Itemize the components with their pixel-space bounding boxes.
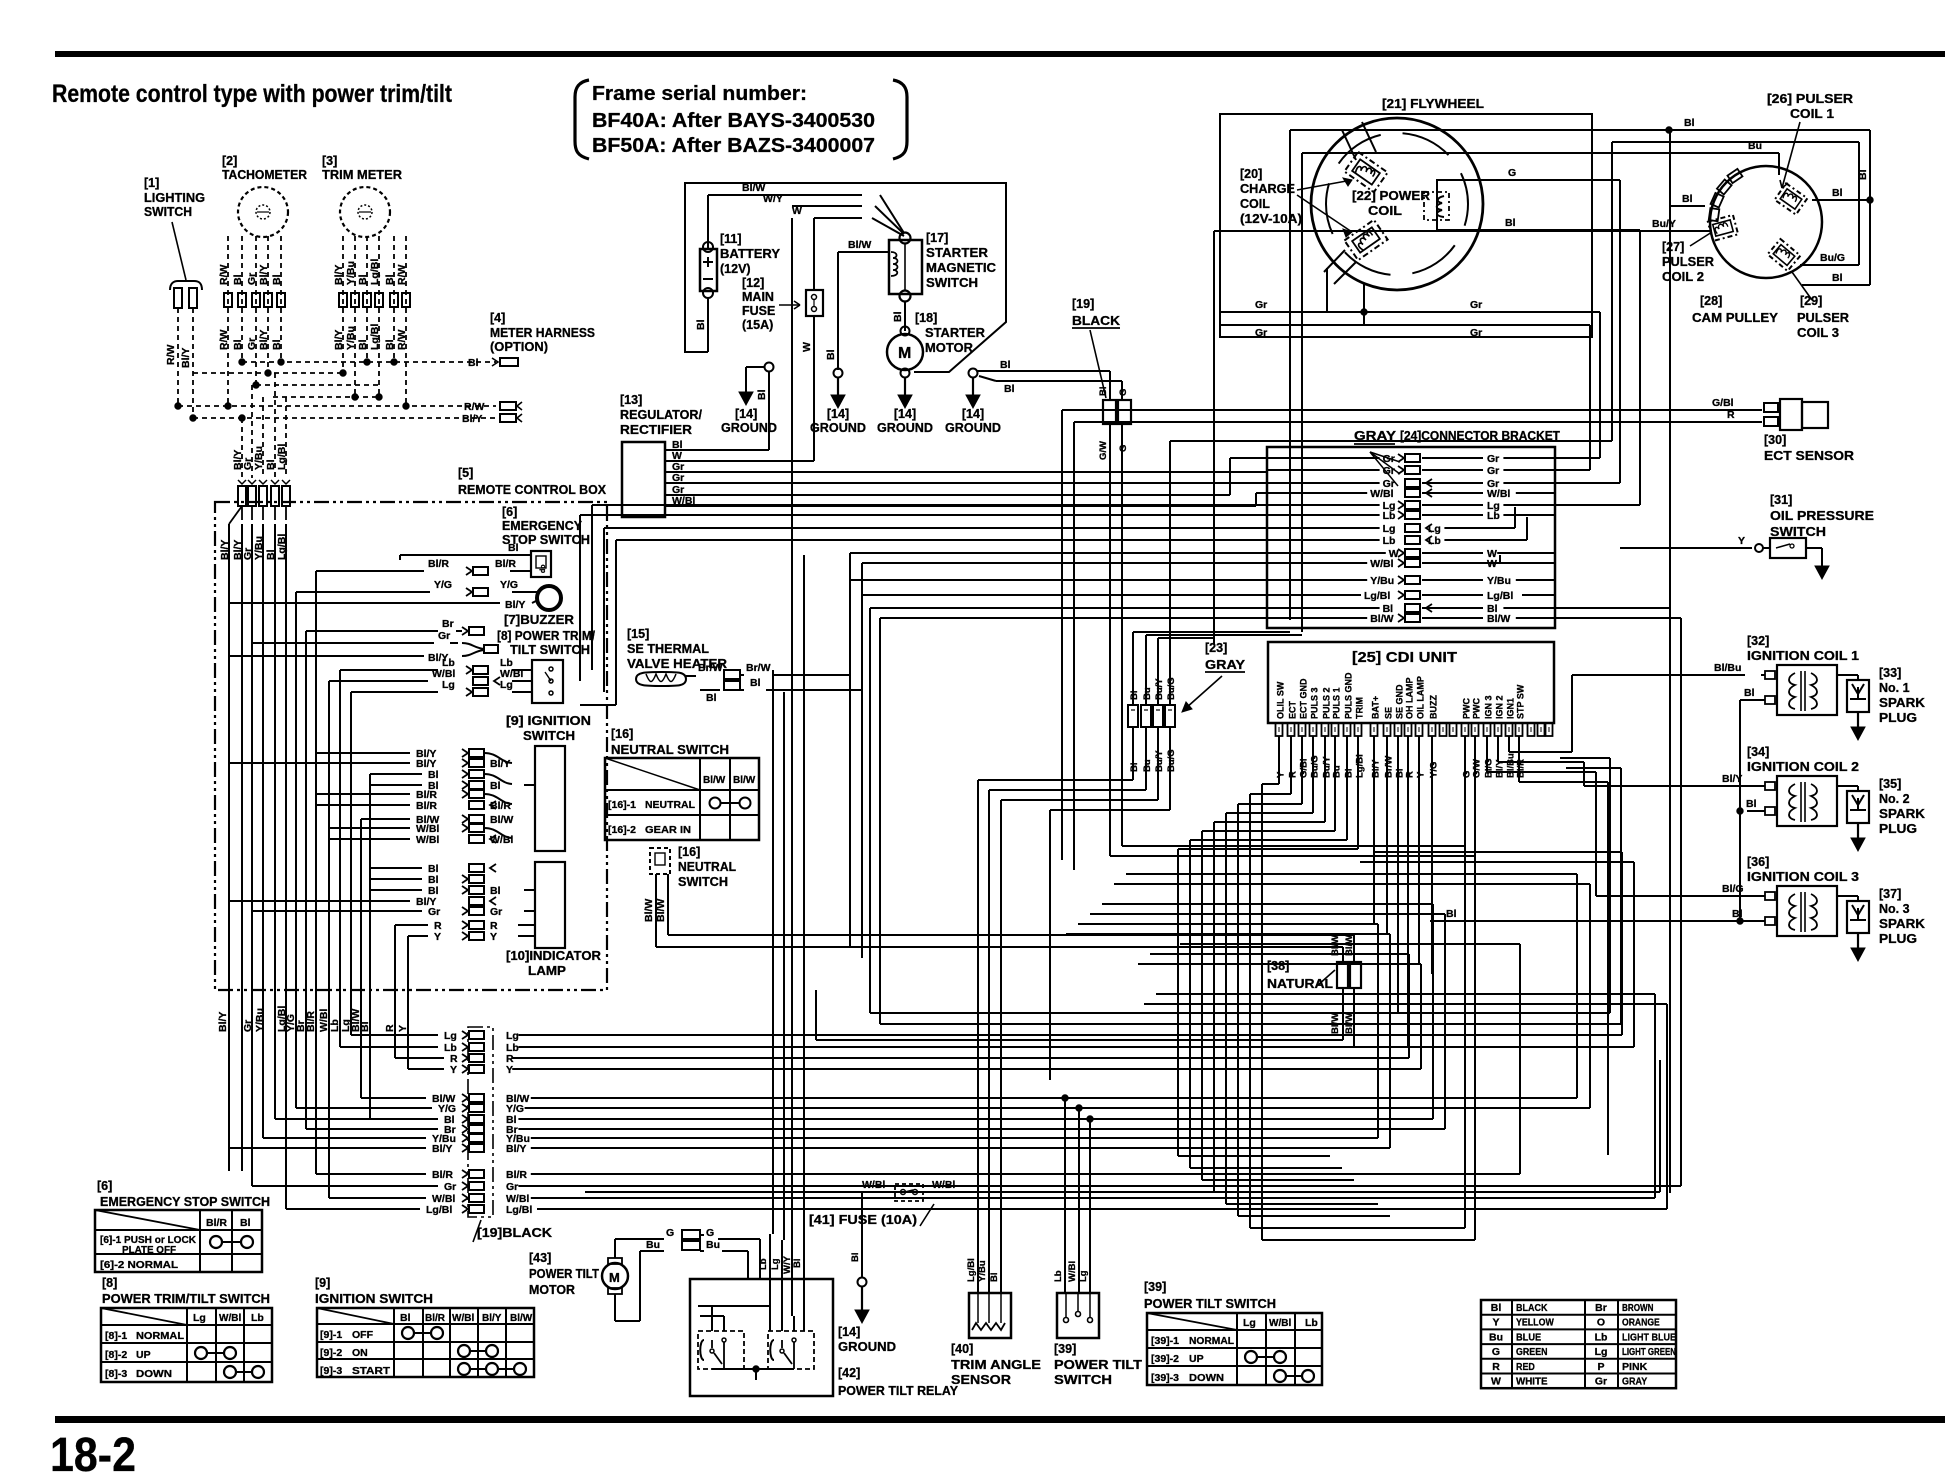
ground label [14] relay [838, 1325, 896, 1354]
svg-text:IGNITION COIL 2: IGNITION COIL 2 [1747, 760, 1859, 774]
svg-text:GROUND: GROUND [838, 1340, 896, 1354]
svg-text:Y/Bu: Y/Bu [1487, 575, 1511, 587]
svg-text:Bl: Bl [232, 339, 244, 350]
relay unit 2 [768, 1331, 814, 1369]
svg-text:Bl: Bl [1744, 687, 1755, 699]
cdi mid wires [1374, 736, 1432, 1047]
svg-text:Bl/Y: Bl/Y [1371, 759, 1382, 778]
svg-text:Bl: Bl [1000, 359, 1011, 371]
svg-text:Lg/Bl: Lg/Bl [966, 1258, 977, 1282]
svg-text:[39]-1: [39]-1 [1151, 1335, 1179, 1347]
wire Br [306, 618, 484, 635]
svg-text:Y: Y [397, 1025, 409, 1032]
oil pressure switch [1620, 535, 1829, 579]
svg-text:Bl: Bl [271, 339, 283, 350]
svg-text:PLUG: PLUG [1879, 932, 1917, 946]
svg-text:PULS 1: PULS 1 [1332, 687, 1342, 719]
svg-text:SWITCH: SWITCH [926, 276, 978, 290]
svg-text:Bl/R: Bl/R [206, 1217, 227, 1229]
svg-text:[5]: [5] [458, 466, 473, 480]
svg-text:Bl: Bl [989, 1273, 1000, 1283]
bracket left run lgbl [862, 595, 1267, 958]
svg-text:R: R [1727, 409, 1735, 421]
svg-text:CAM PULLEY: CAM PULLEY [1692, 311, 1779, 325]
battery Bl lead [695, 298, 708, 352]
pulser coil3 label [29] [1792, 272, 1849, 340]
svg-text:ECT: ECT [1288, 700, 1298, 719]
svg-text:Bl: Bl [357, 339, 369, 350]
svg-text:GROUND: GROUND [945, 421, 1001, 435]
svg-text:[27]: [27] [1662, 240, 1684, 254]
svg-text:PWC: PWC [1462, 698, 1472, 719]
pulser Bl top wire [1290, 117, 1870, 620]
wire Bl/Y fork [229, 652, 448, 664]
connector bracket box [1267, 447, 1555, 628]
pulser coil2 BuY wire [1214, 218, 1712, 644]
svg-text:[9] IGNITION: [9] IGNITION [506, 714, 591, 728]
svg-text:GROUND: GROUND [810, 421, 866, 435]
svg-text:Y/Bu: Y/Bu [345, 326, 357, 350]
svg-text:LIGHT GREEN: LIGHT GREEN [1622, 1346, 1676, 1358]
svg-text:Bl: Bl [359, 1021, 371, 1032]
svg-text:STARTER: STARTER [926, 246, 988, 260]
svg-text:M: M [898, 345, 911, 362]
svg-text:Bu: Bu [1142, 759, 1153, 772]
svg-text:Bl: Bl [271, 274, 283, 285]
svg-text:ORANGE: ORANGE [1622, 1317, 1660, 1329]
svg-text:Bu/Y: Bu/Y [1652, 218, 1676, 230]
wire lighting R/W [165, 308, 178, 406]
svg-text:R: R [1492, 1361, 1500, 1373]
bracket left runs lg lb [580, 505, 1267, 705]
svg-text:BUZZ: BUZZ [1429, 695, 1439, 719]
svg-text:Bl/W: Bl/W [643, 899, 655, 922]
svg-text:Bl/R: Bl/R [425, 1313, 446, 1324]
svg-text:R: R [1288, 771, 1299, 778]
svg-text:GRAY: GRAY [1205, 657, 1245, 672]
svg-text:LIGHT BLUE: LIGHT BLUE [1622, 1331, 1676, 1343]
svg-text:O: O [1597, 1317, 1605, 1329]
svg-text:Br: Br [442, 618, 454, 630]
svg-text:Bl: Bl [490, 885, 501, 897]
svg-text:P: P [1597, 1361, 1604, 1373]
svg-text:[16]-1: [16]-1 [608, 799, 636, 811]
svg-text:[32]: [32] [1747, 634, 1769, 648]
svg-text:W: W [801, 342, 813, 352]
svg-text:Bu: Bu [706, 1239, 720, 1251]
svg-text:Y/Bu: Y/Bu [254, 1008, 266, 1032]
regulator wire Gr1 [665, 471, 1267, 473]
black connector column wires [229, 618, 1681, 1216]
indicator lamp label [506, 949, 601, 978]
svg-text:[2]: [2] [222, 154, 237, 168]
svg-text:W/Bl: W/Bl [1370, 488, 1393, 500]
svg-text:[39]: [39] [1144, 1280, 1166, 1294]
svg-text:[7]BUZZER: [7]BUZZER [504, 613, 574, 627]
svg-text:Gr: Gr [1487, 453, 1499, 465]
svg-text:[6]: [6] [97, 1179, 112, 1193]
pulser rim ticks [1709, 169, 1743, 221]
svg-text:PULS 3: PULS 3 [1310, 687, 1320, 719]
svg-text:EMERGENCY STOP SWITCH: EMERGENCY STOP SWITCH [100, 1194, 270, 1209]
svg-text:Bl: Bl [384, 274, 396, 285]
meter bus Gr [253, 382, 379, 388]
wire Bl/W to switch [838, 239, 889, 342]
svg-text:SENSOR: SENSOR [951, 1372, 1012, 1387]
svg-text:R/W: R/W [165, 345, 177, 366]
svg-text:Bl: Bl [490, 780, 501, 792]
svg-text:W/Bl: W/Bl [1370, 558, 1393, 570]
neutral switch symbol [16] [650, 845, 736, 889]
svg-text:M: M [609, 1270, 620, 1285]
ground labels 14 [810, 407, 1001, 435]
ignition switch wires [228, 748, 536, 846]
svg-text:SWITCH: SWITCH [1770, 524, 1826, 539]
gray connector [23] label [1182, 641, 1245, 712]
svg-text:[15]: [15] [627, 627, 649, 641]
relay unit 1 [698, 1331, 744, 1369]
svg-text:LIGHTING: LIGHTING [144, 191, 205, 205]
svg-text:FUSE: FUSE [742, 304, 775, 318]
svg-text:[22] POWER: [22] POWER [1352, 189, 1430, 203]
bracket diag ticks [1370, 452, 1400, 486]
svg-text:G/W: G/W [1098, 441, 1109, 460]
power coil G wire [1478, 167, 1620, 483]
svg-text:Lg: Lg [1595, 1346, 1608, 1358]
svg-text:[40]: [40] [951, 1342, 973, 1356]
svg-text:Lg: Lg [500, 679, 513, 691]
svg-text:Lg: Lg [1428, 523, 1441, 535]
svg-text:Bl: Bl [792, 1259, 803, 1269]
svg-text:Bl/Y: Bl/Y [333, 265, 345, 285]
pulser coil2 label [1662, 232, 1714, 284]
fuse 10A line [585, 1060, 1660, 1192]
svg-text:Bl: Bl [1832, 272, 1843, 284]
bottom rule [55, 1416, 1945, 1423]
svg-text:CHARGE: CHARGE [1240, 182, 1295, 196]
ect sensor symbol [1764, 399, 1828, 430]
svg-text:[19]: [19] [1072, 297, 1094, 311]
trim meter gauge [340, 187, 390, 237]
svg-text:TRIM: TRIM [1355, 697, 1365, 719]
flywheel [21] label [1382, 96, 1484, 111]
top rule [55, 51, 1945, 57]
starter magnetic switch [17] [889, 231, 996, 302]
svg-text:[43]: [43] [529, 1251, 551, 1265]
svg-text:Y/Bu: Y/Bu [345, 261, 357, 285]
svg-text:UP: UP [1189, 1353, 1204, 1365]
relay label [42] [838, 1366, 958, 1398]
motor Bu wire [615, 1239, 748, 1321]
cdi pins [1276, 672, 1553, 736]
svg-text:Lg: Lg [442, 679, 455, 691]
svg-text:[39]: [39] [1054, 1342, 1076, 1356]
svg-text:Bu: Bu [1332, 765, 1343, 778]
svg-text:Bl/G: Bl/G [1484, 758, 1495, 778]
svg-text:Br/W: Br/W [1384, 756, 1395, 778]
svg-text:EMERGENCY: EMERGENCY [502, 519, 583, 533]
svg-text:[9]-2: [9]-2 [320, 1347, 342, 1359]
charge coil Gr wires [1220, 268, 1600, 470]
svg-text:Bl: Bl [892, 311, 904, 322]
frame serial number box [575, 80, 907, 159]
svg-text:Remote control type with power: Remote control type with power trim/tilt [52, 80, 453, 108]
svg-text:Lb: Lb [1305, 1317, 1318, 1329]
svg-text:[8]: [8] [102, 1276, 117, 1290]
svg-text:BLACK: BLACK [1072, 313, 1121, 328]
svg-text:GEAR IN: GEAR IN [645, 824, 691, 836]
svg-text:NORMAL: NORMAL [1189, 1335, 1235, 1347]
svg-text:[8]-2: [8]-2 [105, 1349, 127, 1361]
svg-text:Lg: Lg [1243, 1317, 1256, 1329]
svg-text:[36]: [36] [1747, 855, 1769, 869]
svg-text:ECT GND: ECT GND [1299, 678, 1309, 719]
svg-text:Bl: Bl [1004, 383, 1015, 395]
svg-text:Lg/Bl: Lg/Bl [506, 1204, 532, 1216]
black connector column outline [468, 1027, 493, 1217]
svg-text:Bl: Bl [384, 339, 396, 350]
svg-text:Gr: Gr [246, 273, 258, 285]
svg-text:Bl/W: Bl/W [510, 1313, 533, 1324]
ground starter motor [898, 377, 912, 408]
cdi wire STP BlR [1519, 736, 1608, 1155]
ground mid Bl [825, 342, 845, 408]
svg-text:SE THERMAL: SE THERMAL [627, 642, 709, 656]
svg-text:PULSER: PULSER [1797, 311, 1849, 325]
ignition coil U2 [34] [1747, 745, 1925, 851]
svg-text:Bl: Bl [1098, 387, 1109, 397]
svg-text:Bl: Bl [400, 1312, 411, 1324]
ect sensor wires [1062, 397, 1762, 870]
svg-text:[26] PULSER: [26] PULSER [1767, 92, 1853, 106]
svg-text:BF40A: After BAYS-3400530: BF40A: After BAYS-3400530 [592, 110, 875, 132]
svg-text:PULS 2: PULS 2 [1322, 687, 1332, 719]
tachometer wires [218, 236, 285, 406]
svg-text:[11]: [11] [720, 232, 742, 246]
svg-text:Lg/Bl: Lg/Bl [1364, 590, 1390, 602]
svg-text:COIL: COIL [1368, 204, 1402, 218]
svg-text:(12V-10A): (12V-10A) [1240, 212, 1302, 226]
svg-text:POWER TRIM/TILT SWITCH: POWER TRIM/TILT SWITCH [102, 1291, 270, 1306]
gw g to cdi [1110, 774, 1475, 856]
svg-text:SPARK: SPARK [1879, 696, 1925, 710]
cdi left wires [1178, 736, 1358, 1240]
meter harness [4] label [490, 311, 595, 354]
svg-text:DOWN: DOWN [1189, 1372, 1224, 1384]
svg-text:COIL: COIL [1240, 197, 1270, 211]
svg-text:[28]: [28] [1700, 294, 1722, 308]
svg-text:SWITCH: SWITCH [523, 729, 575, 743]
gray connector wires up [1133, 441, 1612, 705]
svg-text:Bu: Bu [1489, 1331, 1503, 1343]
svg-text:[8]-1: [8]-1 [105, 1330, 127, 1342]
oil pressure switch label [1770, 493, 1874, 539]
svg-text:STARTER: STARTER [925, 326, 985, 340]
svg-text:Bl: Bl [1682, 193, 1693, 205]
relay verticals from top [592, 218, 804, 1252]
wire Bl/R stop switch [316, 558, 531, 575]
svg-text:[30]: [30] [1764, 433, 1786, 447]
svg-text:Bl: Bl [1129, 691, 1140, 701]
wire Bl/Y buzzer [229, 599, 538, 611]
svg-text:G: G [666, 1227, 674, 1239]
svg-text:UP: UP [136, 1349, 151, 1361]
svg-text:[29]: [29] [1800, 294, 1822, 308]
black connector upper wires down [1098, 371, 1129, 856]
svg-text:Bl/W: Bl/W [490, 814, 513, 826]
svg-text:[18]: [18] [915, 311, 937, 325]
svg-text:TACHOMETER: TACHOMETER [222, 168, 307, 182]
pulser coil 2 symbol [1708, 215, 1738, 241]
svg-text:Lb: Lb [1428, 535, 1441, 547]
svg-text:Bu: Bu [646, 1239, 660, 1251]
svg-text:BLACK: BLACK [1516, 1302, 1548, 1314]
lighting switch [1] label [144, 176, 205, 280]
svg-text:Y/Bu: Y/Bu [253, 446, 265, 470]
svg-text:Lg/Bl: Lg/Bl [276, 444, 288, 470]
svg-text:R: R [384, 1024, 396, 1032]
svg-text:START: START [352, 1365, 391, 1377]
svg-text:Lb: Lb [1487, 510, 1500, 522]
cdi wire G/W [1474, 736, 1476, 1240]
svg-text:Bu/G: Bu/G [1820, 252, 1845, 264]
svg-text:Bl/Y: Bl/Y [505, 599, 525, 611]
svg-text:Gr: Gr [1595, 1376, 1607, 1388]
emergency stop switch table [6] [95, 1179, 270, 1272]
svg-text:Bl/R: Bl/R [432, 1169, 453, 1181]
svg-text:Bl: Bl [1491, 1302, 1502, 1314]
svg-text:W/Bl: W/Bl [219, 1313, 241, 1324]
svg-text:YELLOW: YELLOW [1516, 1317, 1554, 1329]
svg-text:PULSER: PULSER [1662, 255, 1714, 269]
svg-text:G/W: G/W [1472, 759, 1483, 778]
svg-text:[31]: [31] [1770, 493, 1792, 507]
svg-text:IGNITION COIL 3: IGNITION COIL 3 [1747, 870, 1859, 884]
svg-text:IGN 2: IGN 2 [1495, 695, 1505, 719]
pulser Bu wire [1302, 140, 1779, 632]
heater wires [686, 662, 862, 704]
svg-text:Gr: Gr [444, 1181, 456, 1193]
svg-text:NEUTRAL SWITCH: NEUTRAL SWITCH [611, 742, 729, 757]
svg-text:Bl/Y: Bl/Y [180, 348, 192, 368]
svg-text:Bl/Y: Bl/Y [258, 330, 270, 350]
regulator wire W [665, 460, 814, 462]
svg-text:ECT SENSOR: ECT SENSOR [1764, 448, 1855, 463]
svg-text:Bl/Y: Bl/Y [258, 265, 270, 285]
power tilt switch label [1054, 1342, 1142, 1387]
svg-text:[1]: [1] [144, 176, 159, 190]
ignition coil U3 [36] [1747, 855, 1925, 961]
black connector upper symbol [1098, 387, 1131, 425]
svg-text:Lg/Bl: Lg/Bl [1355, 754, 1366, 778]
svg-text:Gr: Gr [1487, 465, 1499, 477]
svg-text:Bu/Y: Bu/Y [1154, 750, 1165, 772]
svg-text:BATTERY: BATTERY [720, 247, 781, 261]
svg-text:Gr: Gr [1255, 299, 1267, 311]
svg-text:BF50A: After BAZS-3400007: BF50A: After BAZS-3400007 [592, 135, 875, 157]
svg-text:W/Bl: W/Bl [416, 834, 439, 846]
svg-text:IGNITION COIL 1: IGNITION COIL 1 [1747, 649, 1859, 663]
svg-text:Lg/Bl: Lg/Bl [369, 259, 381, 285]
svg-text:SWITCH: SWITCH [678, 875, 728, 889]
svg-text:IGN 3: IGN 3 [1484, 695, 1494, 719]
svg-text:Gr: Gr [246, 338, 258, 350]
svg-text:[4]: [4] [490, 311, 505, 325]
svg-text:MOTOR: MOTOR [925, 341, 973, 355]
svg-text:Bl: Bl [1832, 187, 1843, 199]
wire Y/G buzzer [296, 579, 538, 596]
flywheel outer box [1220, 114, 1592, 337]
regulator wire W/Bl [665, 493, 1267, 506]
power coil [22] [1352, 180, 1478, 230]
svg-text:R: R [1405, 771, 1416, 778]
cdi unit box [1268, 642, 1554, 723]
neutral switch wires [643, 874, 1354, 947]
svg-text:PLATE OFF: PLATE OFF [122, 1245, 176, 1256]
cdi wire G [1464, 736, 1466, 846]
wire W fuse [801, 218, 814, 461]
svg-text:ON: ON [352, 1347, 368, 1359]
svg-text:Bl/Y: Bl/Y [482, 1313, 502, 1324]
svg-text:[8]-3: [8]-3 [105, 1368, 127, 1380]
regulator [13] label [620, 393, 703, 437]
mesh riser top horizontals [1066, 852, 1667, 1004]
black connector [19] upper label [1072, 297, 1121, 398]
bracket jog lg lb [1459, 507, 1527, 540]
svg-text:IGN1: IGN1 [1506, 698, 1516, 719]
svg-text:Bl/Y: Bl/Y [432, 1143, 452, 1155]
svg-text:NATURAL: NATURAL [1267, 976, 1333, 991]
svg-text:NEUTRAL: NEUTRAL [678, 860, 736, 874]
svg-text:Y: Y [506, 1064, 513, 1076]
fuse 10A symbol [895, 1184, 923, 1201]
svg-text:W: W [792, 205, 802, 217]
svg-text:Bl/R: Bl/R [495, 558, 516, 570]
svg-text:[33]: [33] [1879, 666, 1901, 680]
svg-text:G: G [1118, 445, 1129, 452]
charge coil 1 [1342, 122, 1388, 192]
svg-text:Bl: Bl [1446, 908, 1457, 920]
meter bus Bl [239, 357, 518, 369]
svg-text:Bl/Y: Bl/Y [333, 330, 345, 350]
svg-text:[16]: [16] [611, 727, 633, 741]
pulser coil 3 symbol [1768, 239, 1801, 271]
svg-text:G: G [1492, 1346, 1500, 1358]
svg-text:Bl/R: Bl/R [490, 800, 511, 812]
svg-text:[39]-2: [39]-2 [1151, 1353, 1179, 1365]
power trim/tilt switch symbol [532, 660, 563, 703]
power coil Bl wire [1478, 217, 1640, 505]
svg-text:DOWN: DOWN [136, 1368, 172, 1380]
cdi pin wire labels [1276, 753, 1527, 778]
svg-text:[14]: [14] [838, 1325, 860, 1339]
pulser circle [1710, 166, 1822, 278]
svg-text:(15A): (15A) [742, 318, 773, 332]
svg-text:SE GND: SE GND [1395, 684, 1405, 719]
ignition switch [9] label [506, 714, 591, 743]
svg-text:COIL 2: COIL 2 [1662, 270, 1704, 284]
heater coil symbol [636, 672, 686, 686]
svg-text:Br: Br [1595, 1302, 1607, 1314]
svg-text:[13]: [13] [620, 393, 642, 407]
wire Bl stop switch [400, 542, 531, 560]
mesh row y1024 [880, 768, 1621, 1024]
svg-text:[38]: [38] [1267, 959, 1289, 973]
svg-text:BROWN: BROWN [1622, 1302, 1654, 1314]
svg-text:Bl/Y: Bl/Y [490, 758, 510, 770]
ignition coil U1 [32] [1747, 634, 1925, 740]
svg-text:[42]: [42] [838, 1366, 860, 1380]
